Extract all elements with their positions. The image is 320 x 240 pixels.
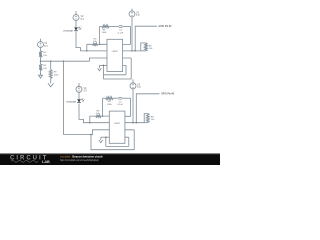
resistor R4 (feedback, top) [100,25,119,34]
resistor R5 (pull-up, top) [141,43,153,51]
CircuitLab logo [10,155,50,164]
capacitor C1 (feedback, top) [118,26,131,35]
ground (R9) [48,83,54,87]
svg-text:http://circuitlab.com/cmee63tq: http://circuitlab.com/cmee63tqbqkwp [60,159,99,162]
ground (U2 pin4) [99,137,109,143]
photodiode D2 LTR4206E (bottom) [66,98,84,103]
IC U2 [109,111,125,143]
ground (U1 pin4) [98,65,107,70]
wire output node riser to GPIO [135,26,157,51]
wire VREF rail to jog [41,60,90,62]
wire feedback to U1 pin1R [129,26,131,44]
wire VREF vertical feed to lower stage [63,61,65,134]
junction dot [89,122,90,123]
photodiode D1 LTR4206E (top) [63,26,81,32]
resistor R8 (pull-up, bottom) [144,114,155,123]
junction dot [103,65,104,66]
wire D1 to U1 pin2 rail [76,32,107,51]
capacitor C2 (feedback, bottom) [117,97,130,106]
IC U1 [107,39,123,71]
svg-text:5 V: 5 V [84,91,88,93]
wire U2 lower loop (pin4 return) [105,137,107,146]
svg-text:LTR4206E: LTR4206E [66,101,76,103]
svg-text:LM567: LM567 [112,51,119,53]
wire R1 to node VREF [40,58,42,65]
svg-text:LAB: LAB [42,160,50,164]
wire D2 to U2 pin2 rail [79,104,109,123]
resistor R7 (feedback, bottom) [103,97,119,106]
footer credit text [60,155,103,162]
svg-text:5 V: 5 V [81,19,85,21]
voltage source V4 (photodiode bias, bottom) [76,83,88,99]
junction dot [105,136,106,137]
wire feedback riser [99,26,101,44]
U1 right pin stubs [123,45,141,66]
junction dot (R3 drop) [86,50,87,51]
svg-text:5 V: 5 V [137,87,141,89]
junction dot (feedback tap) [99,44,100,45]
svg-text:5 V: 5 V [136,15,140,17]
svg-text:5 V: 5 V [44,46,48,48]
svg-text:LM567: LM567 [114,123,121,125]
U2 right pin stubs [125,116,144,137]
wire R6 drop [89,116,91,123]
ground (divider) [39,75,43,78]
wire feedback riser (bottom) [102,98,104,116]
resistor R1 [39,51,48,58]
voltage source V5 (IC supply, bottom) [130,79,141,123]
resistor R3 (top input) [92,39,98,46]
wire VREF jog to U1 pin3 [89,58,107,61]
resistor R9 (VREF load) [49,60,59,83]
junction dot (output node) [134,50,135,51]
node VREF junction [40,60,41,61]
voltage source V1 (divider supply) [38,39,49,51]
junction dot (output node, bottom) [136,122,137,123]
wire R3 drop to pin2 rail [86,44,88,51]
voltage source V2 (photodiode bias, top) [73,11,85,27]
wire U1 inner return loop (pin4) [103,65,105,79]
resistor R6 (bottom input) [96,110,102,117]
junction dot (feedback tap, bottom) [102,115,103,116]
wire R3 row to U1 pin1 [87,43,107,45]
footer bar [0,154,220,165]
svg-text:GPIO Pin #2: GPIO Pin #2 [158,26,172,28]
junction dot (lower rail joins VREF feed) [90,134,91,135]
voltage source V3 (IC supply, top) [129,9,140,52]
wire U2 pin3R to lower rail [91,130,134,150]
wire U1 outer return loop (pin3R) [104,58,132,79]
svg-text:GPIO Pin #3: GPIO Pin #3 [161,94,175,96]
svg-text:0.1uF: 0.1uF [118,32,124,34]
wire R2 to ground [40,71,42,76]
wire R6 row to U2 pin1 [90,115,110,117]
resistor R2 [39,64,48,71]
svg-text:0.1uF: 0.1uF [117,104,123,106]
wire feedback to U2 pin1R [130,98,132,116]
svg-text:LTR4206E: LTR4206E [63,30,73,32]
node VREF branch to lower stage [63,60,64,61]
wire output node riser to GPIO (bottom) [136,94,159,123]
wire VREF feed to U2 pin3 [64,130,110,135]
